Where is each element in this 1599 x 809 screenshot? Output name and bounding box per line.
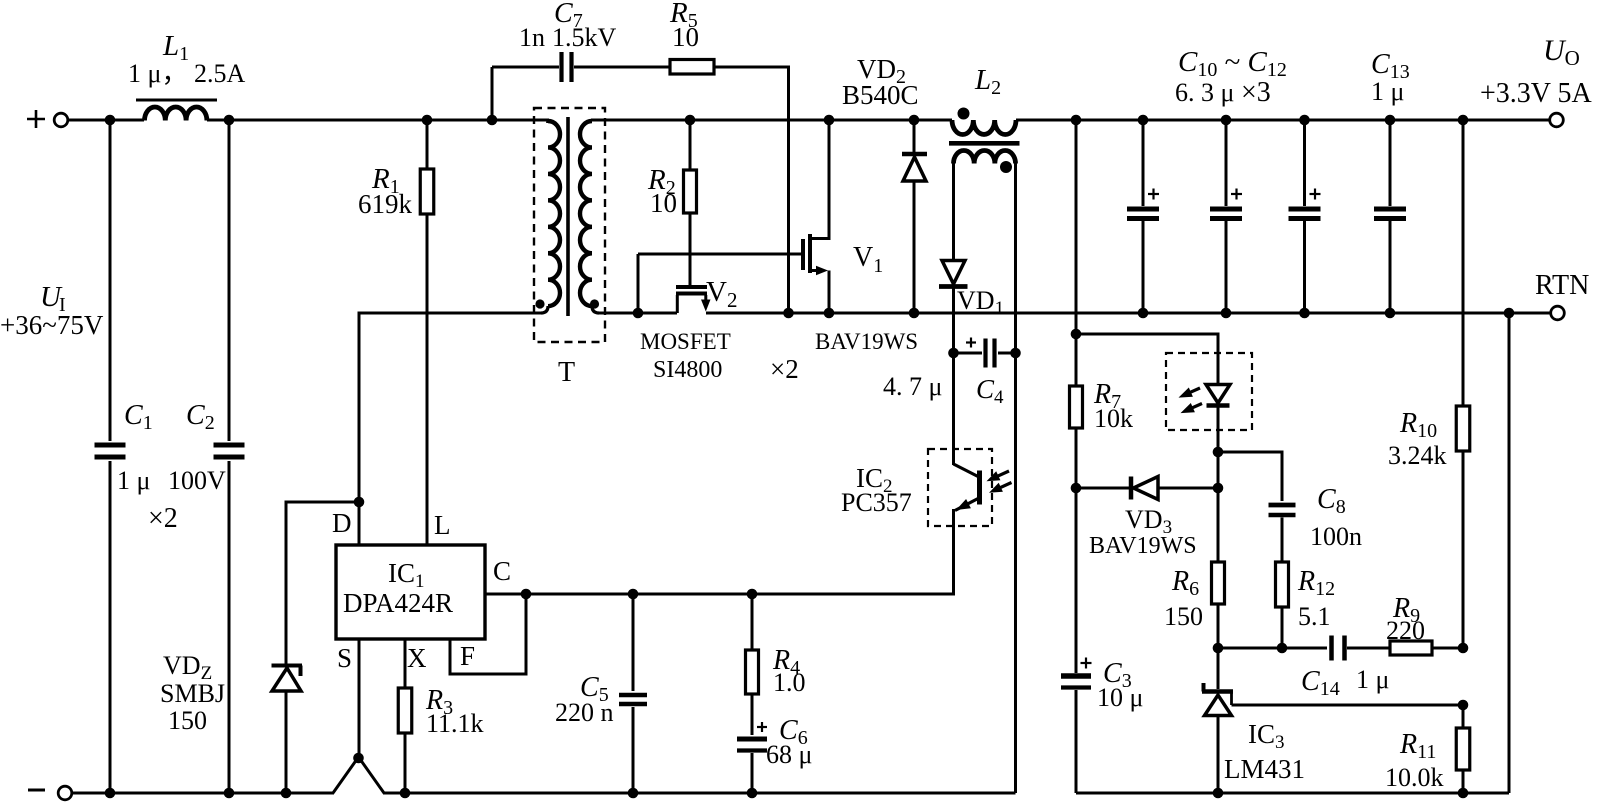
terminal RTN xyxy=(1551,306,1565,320)
transformer T dashed box xyxy=(534,108,605,342)
wire top rail output xyxy=(1016,119,1550,122)
capacitor C4 xyxy=(983,339,987,368)
wire C13 bottom lead xyxy=(1389,221,1392,313)
wire VD3 right lead xyxy=(1158,487,1218,490)
wire R5 right lead xyxy=(714,67,789,313)
transformer T primary winding xyxy=(548,120,549,123)
optocoupler IC2 emitter arrow xyxy=(956,499,971,510)
capacitor C14 xyxy=(1329,636,1334,661)
diode VDz triangle xyxy=(272,668,301,691)
wire IC3 cathode lead xyxy=(1217,648,1220,689)
junction VD3 right xyxy=(1213,483,1224,494)
plus input terminal symbol xyxy=(27,118,45,121)
wire RTN right vertical xyxy=(1508,313,1511,793)
diode LED cathode bar xyxy=(1207,403,1230,408)
svg-text:1 μ: 1 μ xyxy=(1356,665,1389,694)
resistor R1 xyxy=(426,120,429,169)
junction C7 branch xyxy=(487,115,498,126)
junction C6 bottom xyxy=(747,788,758,799)
wire C pin line xyxy=(485,593,954,596)
capacitor C12 xyxy=(1289,207,1321,212)
svg-text:68 μ: 68 μ xyxy=(766,740,812,769)
transformer T primary polarity dot xyxy=(535,299,544,308)
junction R5 to RTN xyxy=(783,308,794,319)
wire C2 top lead xyxy=(228,120,231,441)
wire C1 top lead xyxy=(109,120,112,441)
svg-text:10 μ: 10 μ xyxy=(1097,683,1143,712)
junction S apex xyxy=(353,753,364,764)
capacitor C11 xyxy=(1210,207,1242,212)
resistor R2 xyxy=(689,120,692,170)
wire RTN rail xyxy=(706,312,1551,315)
resistor R5 xyxy=(670,60,714,75)
inductor L2 aux winding xyxy=(954,150,1016,163)
optocoupler IC2 dashed box xyxy=(928,449,992,526)
junction IC3 bottom xyxy=(1213,788,1224,799)
minus input terminal symbol xyxy=(28,789,45,792)
wire VD2 anode lead xyxy=(913,181,916,313)
svg-text:619k: 619k xyxy=(358,189,413,219)
diode VD2 cathode bar xyxy=(902,152,927,157)
svg-text:+3.3V 5A: +3.3V 5A xyxy=(1480,78,1593,109)
wire X pin / resistor R3 xyxy=(404,639,407,688)
wire top rail secondary xyxy=(591,119,952,122)
wire VD1 top lead xyxy=(952,164,955,261)
resistor R10 xyxy=(1462,120,1465,406)
svg-text:10: 10 xyxy=(650,188,677,218)
wire winding bottom to V2 xyxy=(599,312,677,315)
svg-text:C: C xyxy=(493,556,511,586)
svg-text:D: D xyxy=(332,508,352,538)
diode LED light arrow 1 xyxy=(1186,388,1200,394)
wire node line left xyxy=(1218,647,1327,650)
junction R3 bottom xyxy=(400,788,411,799)
inductor L1 xyxy=(145,107,207,121)
capacitor C8 xyxy=(1269,503,1296,508)
transistor V2 channel bar xyxy=(676,292,707,296)
svg-text:DPA424R: DPA424R xyxy=(343,588,453,618)
capacitor C13 xyxy=(1374,207,1406,212)
junction V1 source bottom xyxy=(824,308,835,319)
label C6 plus xyxy=(757,726,767,728)
transformer T secondary polarity dot xyxy=(590,299,599,308)
transistor V2 source arrow xyxy=(701,300,711,312)
wire C7-R5 lead xyxy=(574,66,670,69)
label C4 plus xyxy=(966,341,976,343)
wire LED cathode down xyxy=(1217,407,1220,488)
wire C11 top lead xyxy=(1225,120,1228,206)
junction C5 bottom xyxy=(628,788,639,799)
junction C2 bottom xyxy=(224,788,235,799)
svg-text:×2: ×2 xyxy=(148,503,178,534)
wire R12 bottom lead xyxy=(1281,607,1284,648)
wire VDz anode lead xyxy=(285,691,288,793)
junction C13 top xyxy=(1385,115,1396,126)
svg-text:T: T xyxy=(558,357,575,388)
svg-text:PC357: PC357 xyxy=(841,488,912,517)
wire bottom rail hop xyxy=(333,757,384,793)
wire gate line horizontal xyxy=(638,253,803,256)
wire C8 branch xyxy=(1218,452,1282,501)
svg-text:SI4800: SI4800 xyxy=(653,357,722,383)
junction VD2 top xyxy=(909,115,920,126)
junction LED C8 branch xyxy=(1213,447,1224,458)
svg-text:LM431: LM431 xyxy=(1224,754,1305,784)
junction VD2 bottom xyxy=(909,308,920,319)
svg-text:150: 150 xyxy=(168,706,207,735)
svg-text:1 μ， 2.5A: 1 μ， 2.5A xyxy=(128,59,245,88)
wire IC3 ref line xyxy=(1232,704,1464,707)
junction V1 drain top xyxy=(824,115,835,126)
svg-text:100n: 100n xyxy=(1310,522,1362,551)
svg-text:11.1k: 11.1k xyxy=(426,709,484,738)
resistor R6 xyxy=(1217,488,1220,562)
junction R11 bottom xyxy=(1458,788,1469,799)
wire L pin xyxy=(426,214,429,545)
svg-text:3.24k: 3.24k xyxy=(1388,441,1447,470)
optocoupler LED dashed box xyxy=(1166,353,1252,430)
svg-text:×2: ×2 xyxy=(770,354,799,384)
wire top rail input mid xyxy=(207,119,549,122)
junction D pin branch xyxy=(354,497,365,508)
junction C1 bottom xyxy=(105,788,116,799)
transistor V2 drain leg xyxy=(676,295,679,313)
wire C6 bottom lead xyxy=(751,753,754,793)
wire R9 right lead xyxy=(1432,647,1463,650)
terminal + input xyxy=(54,113,68,127)
svg-text:150: 150 xyxy=(1164,602,1203,631)
wire C12 top lead xyxy=(1303,120,1306,206)
label C10 plus xyxy=(1148,193,1159,195)
wire C7 branch up xyxy=(491,67,494,120)
svg-text:220: 220 xyxy=(1386,616,1425,645)
svg-text:L: L xyxy=(434,510,451,540)
junction ref right xyxy=(1458,700,1469,711)
resistor R4 xyxy=(751,594,754,650)
svg-text:+36~75V: +36~75V xyxy=(0,310,104,340)
diode VD1 cathode bar xyxy=(939,284,968,289)
svg-text:4. 7 μ: 4. 7 μ xyxy=(883,372,942,401)
diode VD2 triangle xyxy=(903,157,926,181)
diode LED light arrow 2 xyxy=(1188,404,1202,410)
capacitor C1 xyxy=(95,443,126,448)
svg-text:5.1: 5.1 xyxy=(1298,602,1331,631)
junction C5 top xyxy=(628,589,639,600)
wire F pin loop xyxy=(450,594,526,674)
svg-text:10k: 10k xyxy=(1094,404,1133,433)
svg-text:RTN: RTN xyxy=(1535,270,1589,301)
wire C12 bottom lead xyxy=(1303,221,1306,313)
svg-text:100V: 100V xyxy=(168,466,226,495)
transformer T primary exit xyxy=(541,306,548,313)
wire C7 left lead xyxy=(492,66,559,69)
junction RTN right vertical top xyxy=(1504,308,1515,319)
junction C4 left xyxy=(948,348,959,359)
junction L1 right / C2 top xyxy=(224,115,235,126)
svg-text:MOSFET: MOSFET xyxy=(640,329,731,354)
transformer T secondary winding xyxy=(580,121,592,306)
wire R7 to C3 xyxy=(1075,488,1078,673)
ic IC3 triangle xyxy=(1205,695,1232,716)
junction R9 right xyxy=(1458,643,1469,654)
capacitor C7 xyxy=(559,52,563,82)
ic IC1 box xyxy=(336,545,485,639)
wire C3 bottom lead xyxy=(1075,690,1078,793)
wire C14 to R9 xyxy=(1347,647,1390,650)
junction feedback top xyxy=(1071,115,1082,126)
junction R4 top xyxy=(747,589,758,600)
transistor V1 source arrow xyxy=(816,266,828,275)
wire R2 to V2 gate xyxy=(689,213,692,285)
wire VD3 left lead xyxy=(1076,487,1129,490)
optocoupler IC2 bar xyxy=(977,471,982,505)
wire primary bottom xyxy=(359,313,541,545)
svg-text:X: X xyxy=(407,643,427,673)
svg-text:1 μ: 1 μ xyxy=(117,466,150,495)
junction C11 bottom xyxy=(1221,308,1232,319)
junction C13 bottom xyxy=(1385,308,1396,319)
transformer T core xyxy=(566,117,570,316)
junction C10 bottom xyxy=(1138,308,1149,319)
transistor V1 gate bar xyxy=(801,239,805,270)
svg-text:10.0k: 10.0k xyxy=(1385,763,1444,792)
transistor V1 drain xyxy=(810,120,829,239)
wire C4 right lead xyxy=(998,352,1016,355)
junction R1 top xyxy=(422,115,433,126)
capacitor C6 xyxy=(737,737,767,742)
junction C4 right xyxy=(1010,348,1021,359)
transistor V1 channel bar xyxy=(808,234,812,273)
diode VD3 triangle xyxy=(1134,477,1159,500)
transistor V1 source xyxy=(810,269,820,272)
junction R2 top xyxy=(685,115,696,126)
wire feedback tap xyxy=(1075,120,1078,386)
wire bottom rail right xyxy=(1076,792,1509,795)
resistor R9 xyxy=(1390,641,1432,655)
junction C12 bottom xyxy=(1299,308,1310,319)
wire C10 bottom lead xyxy=(1142,221,1145,313)
wire IC3 anode lead xyxy=(1217,716,1220,793)
inductor L1 bar xyxy=(136,99,217,102)
diode VDz cathode bar xyxy=(272,664,303,668)
capacitor C2 xyxy=(214,443,245,448)
wire gate line left drop xyxy=(637,254,640,313)
resistor R11 xyxy=(1462,705,1465,728)
capacitor C3 xyxy=(1061,673,1091,679)
svg-text:6. 3 μ ×3: 6. 3 μ ×3 xyxy=(1175,77,1271,108)
junction L1 left / C1 top xyxy=(105,115,116,126)
wire top rail input left xyxy=(67,119,144,122)
svg-text:B540C: B540C xyxy=(842,80,919,110)
ic IC3 cathode bar xyxy=(1202,689,1233,694)
wire bottom rail left xyxy=(72,792,335,795)
wire S pin xyxy=(358,639,361,757)
svg-text:SMBJ: SMBJ xyxy=(160,679,225,708)
svg-text:F: F xyxy=(460,641,475,671)
wire C13 top lead xyxy=(1389,120,1392,206)
inductor L2 main winding xyxy=(952,120,1016,135)
junction C-F xyxy=(521,589,532,600)
capacitor C5 xyxy=(619,693,647,698)
inductor L2 polarity dot aux xyxy=(1000,161,1012,173)
capacitor C10 xyxy=(1127,207,1159,212)
svg-text:1 μ: 1 μ xyxy=(1371,77,1404,106)
junction VDz bottom xyxy=(281,788,292,799)
inductor L2 polarity dot main xyxy=(958,108,970,120)
junction gate left on winding bottom xyxy=(633,308,644,319)
wire C10 top lead xyxy=(1142,120,1145,206)
wire C5 bottom lead xyxy=(632,707,635,793)
wire L2 aux right down xyxy=(1014,164,1017,794)
svg-text:10: 10 xyxy=(672,22,699,52)
transistor V2 source leg xyxy=(704,295,707,305)
junction C11 top xyxy=(1221,115,1232,126)
inductor L2 core bar xyxy=(949,141,1020,146)
terminal Uo xyxy=(1550,113,1564,127)
label C3 plus xyxy=(1081,662,1092,664)
wire VDz branch xyxy=(286,502,359,664)
transistor V2 gate bar xyxy=(676,285,707,289)
svg-text:1.5kV: 1.5kV xyxy=(552,23,617,52)
wire VD1 bottom lead xyxy=(952,288,955,352)
wire C11 bottom lead xyxy=(1225,221,1228,313)
junction R7 bottom / VD3 left xyxy=(1071,483,1082,494)
diode LED triangle xyxy=(1206,385,1230,404)
optocoupler IC2 emitter diag xyxy=(955,498,979,511)
junction C10 top xyxy=(1138,115,1149,126)
wire C8 to R12 xyxy=(1281,518,1284,563)
wire C2 bottom lead xyxy=(228,461,231,793)
junction R12 bottom xyxy=(1277,643,1288,654)
optocoupler IC2 collector diag xyxy=(954,464,980,477)
junction feedback branch xyxy=(1071,329,1082,340)
svg-text:1n: 1n xyxy=(519,23,545,52)
terminal - input xyxy=(58,786,72,800)
resistor R12 xyxy=(1276,562,1289,607)
junction R10 top xyxy=(1458,115,1469,126)
svg-text:BAV19WS: BAV19WS xyxy=(1089,533,1197,559)
wire C5 top lead xyxy=(632,594,635,691)
label C11 plus xyxy=(1231,193,1242,195)
wire C4 left lead xyxy=(954,352,983,355)
svg-text:220 n: 220 n xyxy=(555,698,614,727)
svg-text:S: S xyxy=(337,643,352,673)
wire LED branch xyxy=(1076,334,1218,384)
junction R6 bottom xyxy=(1213,643,1224,654)
diode VD3 cathode bar xyxy=(1129,477,1134,500)
wire VD2 cathode lead xyxy=(913,120,916,154)
optocoupler IC2 light arrow 2 xyxy=(997,483,1012,490)
label C12 plus xyxy=(1310,193,1321,195)
diode VD1 triangle xyxy=(942,261,965,285)
junction C12 top xyxy=(1299,115,1310,126)
optocoupler IC2 light arrow 1 xyxy=(994,471,1009,478)
transformer T secondary exit xyxy=(592,306,599,313)
svg-text:1.0: 1.0 xyxy=(773,668,806,697)
svg-text:BAV19WS: BAV19WS xyxy=(815,329,918,354)
wire IC2 collector xyxy=(952,353,955,465)
resistor R7 xyxy=(1075,385,1078,388)
wire IC2 emitter down xyxy=(527,509,954,594)
wire V1 source down xyxy=(828,271,831,314)
wire bottom rail mid xyxy=(383,792,1016,795)
wire C1 bottom lead xyxy=(109,461,112,793)
